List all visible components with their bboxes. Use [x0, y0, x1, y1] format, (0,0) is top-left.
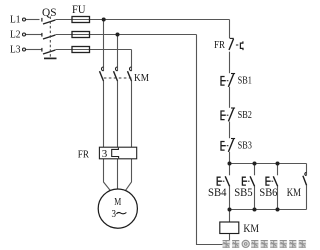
svg-text:FU: FU: [72, 2, 86, 16]
svg-text:FR: FR: [78, 149, 89, 160]
svg-text:3: 3: [102, 148, 108, 160]
svg-text:L2: L2: [10, 29, 21, 40]
svg-text:3: 3: [112, 208, 117, 220]
svg-text:SB6: SB6: [259, 187, 277, 199]
svg-text:KM: KM: [243, 221, 259, 235]
svg-text:FR: FR: [214, 40, 225, 51]
svg-text:QS: QS: [42, 5, 57, 19]
svg-text:SB1: SB1: [238, 75, 252, 87]
svg-text:SB2: SB2: [238, 109, 252, 121]
svg-text:KM: KM: [287, 187, 301, 199]
svg-text:SB5: SB5: [234, 187, 253, 199]
svg-text:KM: KM: [134, 73, 150, 84]
svg-text:L1: L1: [10, 14, 21, 25]
svg-text:SB3: SB3: [238, 140, 253, 152]
svg-text:M: M: [114, 197, 121, 208]
svg-text:SB4: SB4: [208, 187, 227, 199]
svg-text:L3: L3: [10, 45, 21, 56]
